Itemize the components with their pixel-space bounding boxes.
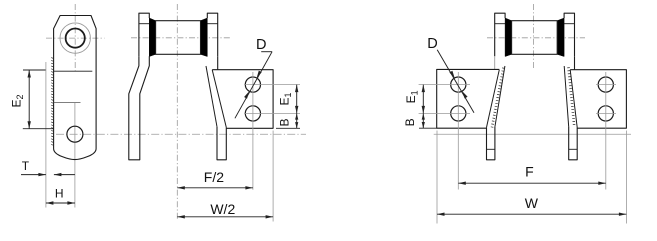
right view: left attachment platform xyxy=(437,69,500,128)
right view: left bent plate outer bend edge (serrated) xyxy=(495,66,505,127)
centerline: middle view horizontal pin axis xyxy=(131,37,231,39)
right view: right sidebar lower edge xyxy=(574,56,576,69)
dimension E2 line xyxy=(28,70,30,129)
svg-text:W: W xyxy=(525,195,539,211)
centerline: right platform holes horizontal xyxy=(596,84,616,86)
lower pin hole xyxy=(67,126,83,142)
svg-text:F/2: F/2 xyxy=(204,169,224,185)
centerline: left view vertical through top hole xyxy=(74,4,76,71)
inner line across plate (attachment lower edge) xyxy=(54,101,81,103)
centerline: left platform holes horizontal bottom xyxy=(419,112,470,114)
dimension B (middle view) xyxy=(276,127,300,129)
middle view: right sidebar lower edge xyxy=(217,56,219,69)
weld serration along plate left edge xyxy=(51,57,53,60)
svg-text:T: T xyxy=(22,159,30,173)
centerline: left view pin hole horizontal xyxy=(46,37,105,39)
centerline: right platform holes vertical xyxy=(605,72,607,190)
right view: right platform hole top xyxy=(598,77,613,92)
top pin hole outer circle xyxy=(60,23,90,53)
right link: pin end line left xyxy=(495,23,505,25)
extension line: lower hole vertical / H dimension right xyxy=(74,103,76,208)
extension line: attachment face / T and H dimension left xyxy=(45,62,47,208)
dimension E1 (middle view) xyxy=(296,85,298,114)
centerline: top hole horizontal xyxy=(244,84,300,86)
right view: right bent plate outer bend edge (serrated) xyxy=(564,66,569,127)
middle link: pin end line left xyxy=(139,23,149,25)
svg-text:H: H xyxy=(55,186,64,200)
right link: left sidebar plate xyxy=(495,13,505,56)
middle link: pin end line right xyxy=(207,23,217,25)
dimension E2 extension top xyxy=(23,69,46,71)
dimension E2 extension bottom xyxy=(23,128,54,130)
right view: left foot inner line xyxy=(487,148,495,150)
middle view: platform hole top xyxy=(245,77,260,92)
right view: left bent plate inner bend edge xyxy=(487,70,500,128)
middle view: left leg (plain sidebar) xyxy=(129,56,150,160)
centerline: right view horizontal pin axis xyxy=(487,37,585,39)
svg-text:F: F xyxy=(525,164,534,180)
right view: left platform hole bottom xyxy=(451,106,466,121)
middle link: right sidebar plate xyxy=(207,13,217,56)
right link: sectioned plate (black) right xyxy=(557,18,564,57)
svg-text:W/2: W/2 xyxy=(210,201,235,217)
dimension T line right part xyxy=(54,174,75,176)
middle view: bent attachment plate outer bend edge xyxy=(206,66,217,127)
right link: roller xyxy=(512,21,558,55)
extension line: platform right edge for W/2 xyxy=(272,131,274,222)
centerline: platform holes vertical xyxy=(252,72,254,190)
right view: left sidebar lower edge xyxy=(494,56,496,69)
centerline: right view vertical chain axis xyxy=(533,4,535,68)
svg-text:B: B xyxy=(278,118,292,126)
right link: pin end line right xyxy=(564,23,574,25)
middle view: platform hole bottom xyxy=(245,106,260,121)
right view: right foot xyxy=(569,127,578,160)
middle view: bent attachment plate inner bend edge xyxy=(212,70,226,128)
right link: right sidebar plate xyxy=(564,13,574,56)
svg-text:D: D xyxy=(256,37,266,53)
projection line lower pitch (right view) xyxy=(434,133,631,135)
dimension F/2 xyxy=(177,187,253,189)
middle link: sectioned plate (black) left xyxy=(149,18,155,57)
extension lines W xyxy=(436,131,438,224)
top pin hole xyxy=(66,28,85,47)
right link: sectioned plate (black) left xyxy=(505,18,512,57)
right view: right bent plate inner bend edge xyxy=(570,70,577,128)
dimension B (right view) xyxy=(419,127,437,129)
middle view: right foot xyxy=(217,127,226,160)
dimension H line xyxy=(46,202,75,204)
middle link: left sidebar plate xyxy=(139,13,149,56)
centerline: bottom hole horizontal xyxy=(244,112,300,114)
right view: right attachment platform xyxy=(570,70,626,129)
dimension T line left part xyxy=(21,174,46,176)
right view: left platform hole top xyxy=(451,77,466,92)
centerline: left platform holes horizontal top xyxy=(419,84,470,86)
dimension F xyxy=(458,182,606,184)
centerline: middle view vertical chain axis xyxy=(176,4,178,220)
middle view: attachment platform xyxy=(212,70,273,129)
centerline: left platform holes vertical xyxy=(457,72,459,190)
svg-text:D: D xyxy=(427,36,437,52)
right view: right foot inner line xyxy=(569,148,578,150)
link plate outline (left view) xyxy=(54,16,97,160)
middle link: sectioned plate (black) right xyxy=(201,18,208,57)
middle link: roller xyxy=(156,21,201,55)
dimension W xyxy=(437,213,626,215)
dimension W/2 xyxy=(177,216,273,218)
centerline: left view lower hole horizontal, projected across middle view xyxy=(56,133,306,135)
right view: right platform hole bottom xyxy=(598,106,613,121)
right view: left foot xyxy=(487,127,495,160)
svg-text:B: B xyxy=(403,118,417,126)
dimension E1 (right view) xyxy=(422,85,424,114)
inner line across plate (attachment top edge) xyxy=(54,70,93,72)
